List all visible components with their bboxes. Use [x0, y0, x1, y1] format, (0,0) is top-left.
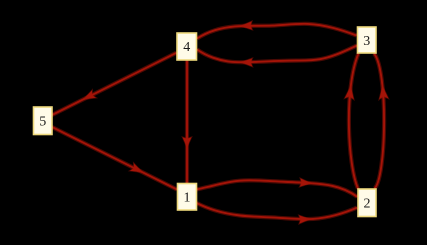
wire halo: edge 3->4 upper curve: [197, 24, 357, 39]
wire halo: edge 5->1: [52, 127, 177, 190]
arrowhead 2->3 left: [345, 86, 354, 100]
edge 2->3 right curve: [374, 54, 384, 189]
edge 2->3 left curve: [349, 54, 359, 189]
arrowhead 4->5: [83, 90, 96, 99]
edge 5->1: [52, 127, 177, 190]
wire halo: edge 2->3 right curve: [374, 54, 384, 189]
arrowhead 5->1: [130, 163, 143, 172]
arrowhead 3->4 lower: [241, 58, 253, 66]
arrowhead 1->2 lower: [299, 215, 310, 223]
svg-text:3: 3: [363, 34, 370, 49]
arrowhead 4->1: [183, 137, 192, 147]
edge 1->2 lower curve: [197, 203, 357, 219]
wire halo: edge 1->2 lower curve: [197, 203, 357, 219]
svg-text:1: 1: [184, 191, 191, 206]
node 3 box: [358, 27, 377, 53]
wire halo: edge 4->5: [52, 53, 176, 115]
node 4 box: [177, 33, 197, 60]
arrowhead 2->3 right: [379, 86, 388, 99]
edge 3->4 lower curve: [197, 46, 357, 63]
edge 4->5: [52, 53, 176, 115]
svg-text:4: 4: [183, 40, 190, 55]
edge 3->4 upper curve: [197, 24, 357, 39]
wire halo: edge 2->3 left curve: [349, 54, 359, 189]
svg-text:5: 5: [39, 115, 46, 130]
edge 4->1: [186, 60, 188, 183]
wire halo: edge 3->4 lower curve: [197, 46, 357, 63]
arrowhead 3->4 upper: [241, 21, 253, 29]
wire halo: edge 1->2 upper curve: [197, 180, 358, 197]
edge 1->2 upper curve: [197, 180, 358, 197]
node 2 box: [358, 189, 376, 217]
arrowhead 1->2 upper: [300, 178, 311, 186]
svg-text:2: 2: [364, 197, 371, 212]
node 5 box: [34, 107, 53, 135]
node 1 box: [178, 184, 197, 211]
wire halo: edge 4->1: [185, 60, 189, 183]
